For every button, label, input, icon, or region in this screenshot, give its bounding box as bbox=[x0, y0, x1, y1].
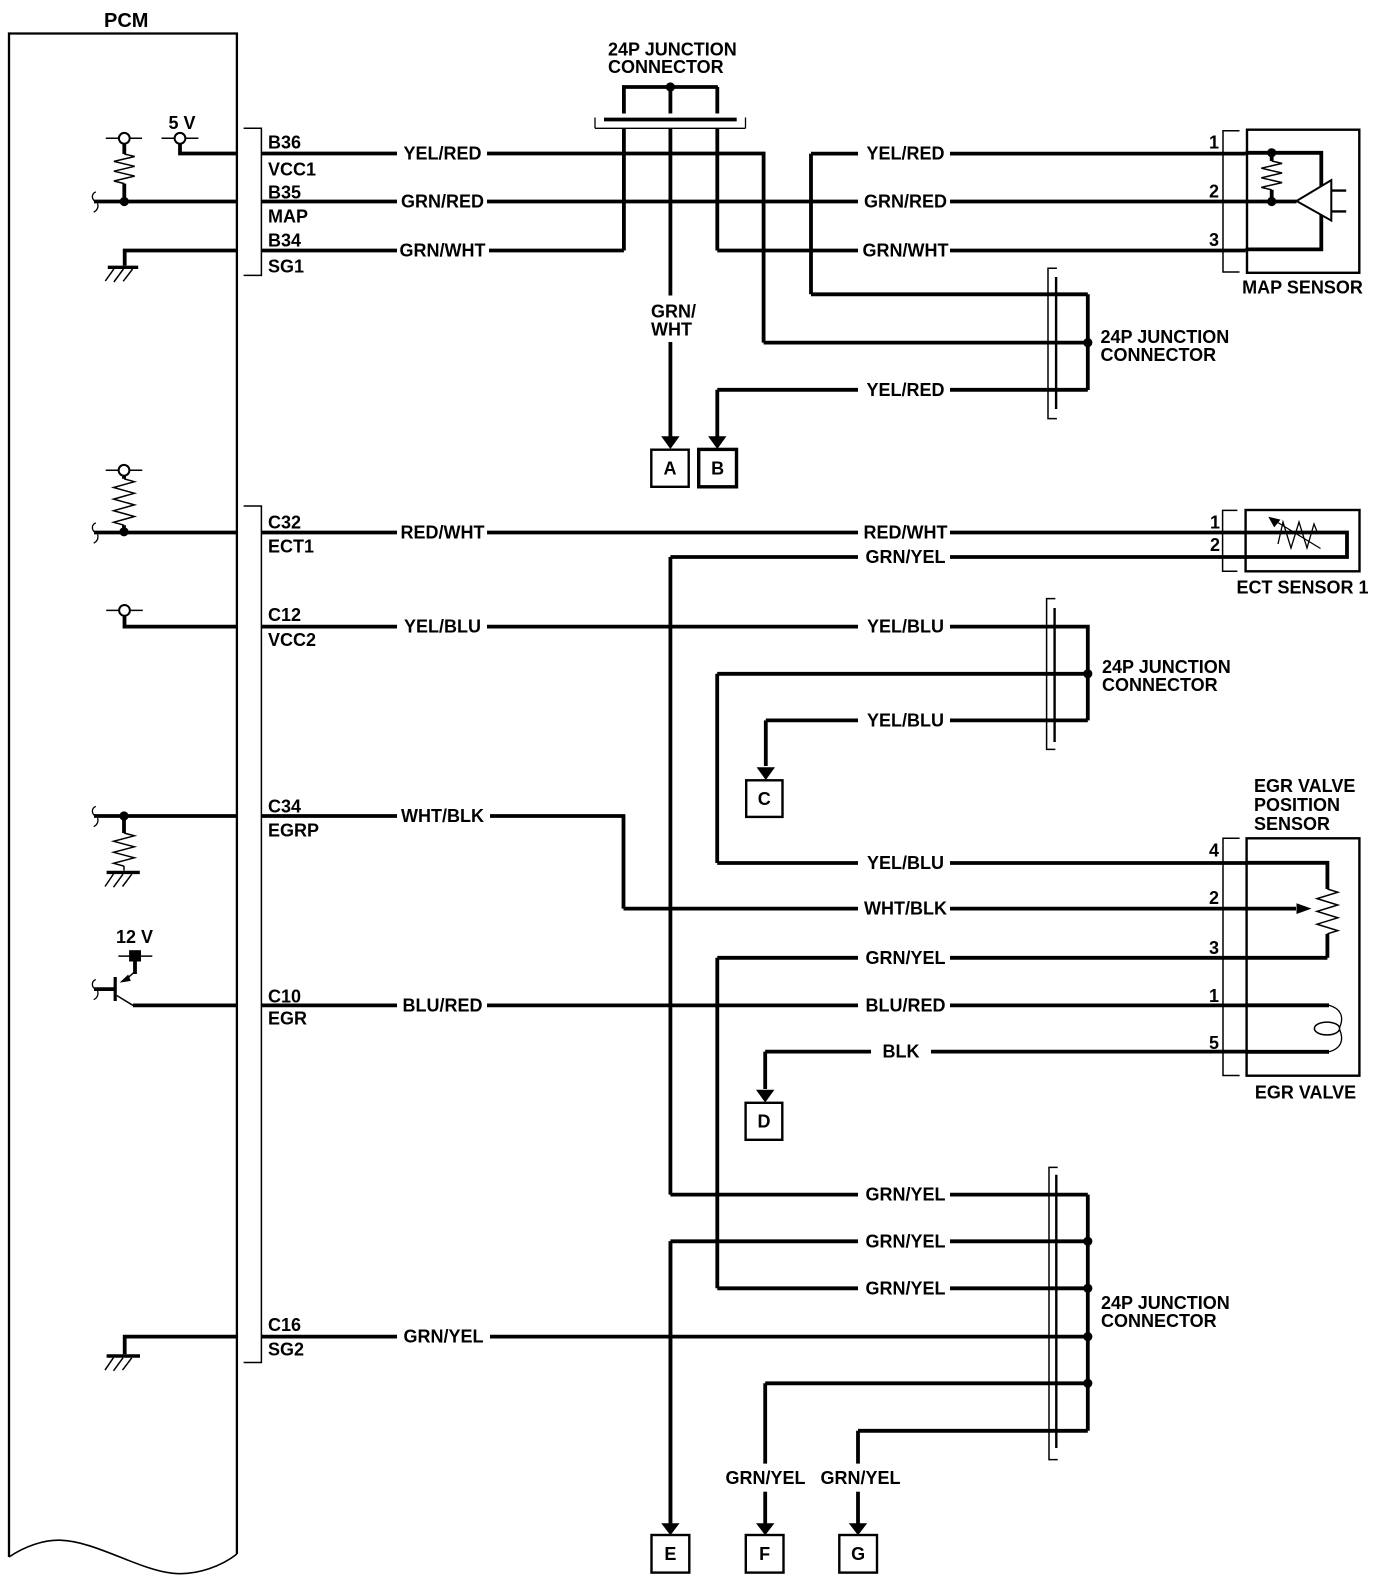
arrowhead A bbox=[661, 436, 679, 449]
svg-text:BLU/RED: BLU/RED bbox=[403, 995, 483, 1015]
EGR connector bracket bbox=[1223, 838, 1240, 1075]
wire GRN/WHT to MAP pin3 bbox=[950, 249, 1246, 253]
MAP internal supply wire bbox=[1246, 153, 1322, 250]
ECT connector bracket bbox=[1223, 510, 1238, 571]
wire YEL/RED upper run to MAP pin1 branch bbox=[811, 154, 1088, 295]
wire-break squiggle at transistor base bbox=[92, 980, 98, 1000]
wire GRN/YEL row6 (G) bbox=[858, 1431, 1088, 1464]
pin label ECT1 bbox=[268, 536, 314, 556]
pin number 2 (EGR) bbox=[1209, 888, 1219, 908]
label BLU/RED bbox=[403, 995, 483, 1015]
svg-text:GRN/YEL: GRN/YEL bbox=[865, 1278, 945, 1298]
wire WHT/BLK lower run bbox=[624, 907, 859, 911]
PCM box U1 bbox=[9, 10, 237, 1574]
svg-text:24P JUNCTION: 24P JUNCTION bbox=[1101, 1293, 1230, 1313]
svg-text:EGRP: EGRP bbox=[268, 820, 319, 840]
wire YEL/BLU C12 left segment bbox=[261, 625, 397, 629]
junction dot C16 row bbox=[1083, 1332, 1092, 1341]
wire GRN/RED middle segment bbox=[487, 200, 858, 204]
svg-text:RED/WHT: RED/WHT bbox=[864, 523, 948, 543]
wire GRN/YEL row5 (F) bbox=[765, 1383, 1088, 1463]
PCM connector bracket (B group) bbox=[244, 128, 262, 275]
label YEL/RED at MAP pin1 bbox=[866, 144, 944, 164]
ground SG1 bbox=[105, 267, 138, 282]
ground at EGRP resistor bbox=[105, 872, 140, 887]
label GRN/YEL row1 bbox=[865, 1185, 945, 1205]
wire GRN/YEL row3 left segment bbox=[717, 1286, 858, 1290]
MAP sensor connector bracket bbox=[1223, 131, 1240, 272]
wire YEL/BLU to EGR pin4 bbox=[950, 861, 1246, 865]
wire YEL/BLU branch to C left segment bbox=[766, 720, 858, 766]
svg-text:YEL/RED: YEL/RED bbox=[866, 144, 944, 164]
svg-text:1: 1 bbox=[1210, 512, 1220, 532]
node B box bbox=[699, 449, 737, 486]
wire GRN/WHT from junction to label bbox=[717, 249, 858, 253]
wire YEL/RED B36 left segment bbox=[261, 152, 397, 156]
EGR position sensor potentiometer bbox=[1246, 863, 1338, 958]
wire RED/WHT C32 left segment bbox=[261, 531, 397, 535]
svg-text:CONNECTOR: CONNECTOR bbox=[1101, 1311, 1217, 1331]
svg-text:GRN/YEL: GRN/YEL bbox=[403, 1327, 483, 1347]
svg-text:POSITION: POSITION bbox=[1254, 795, 1340, 815]
24P junction connector (right upper) body bbox=[1048, 268, 1057, 418]
wire BLU/RED to EGR pin1 bbox=[950, 1004, 1246, 1008]
pin label SG1 bbox=[268, 256, 304, 276]
transistor Q1 bbox=[94, 972, 135, 1007]
label EGR VALVE POSITION SENSOR bbox=[1254, 776, 1355, 834]
label YEL/BLU at C branch bbox=[867, 710, 944, 730]
svg-text:CONNECTOR: CONNECTOR bbox=[608, 57, 724, 77]
pin number 1 (ECT) bbox=[1210, 512, 1220, 532]
svg-text:SG1: SG1 bbox=[268, 256, 304, 276]
junction dot YEL/BLU bus bbox=[1083, 669, 1092, 678]
wire GRN/YEL EGR pin3 left segment bbox=[717, 958, 858, 1289]
pin label VCC2 bbox=[268, 630, 316, 650]
label 24P JUNCTION CONNECTOR (bottom) bbox=[1101, 1293, 1230, 1331]
wire GRN/RED B35 left segment bbox=[261, 200, 397, 204]
label BLK bbox=[883, 1042, 920, 1062]
wire GRN/YEL row2 to bus bbox=[950, 1239, 1088, 1243]
terminal circle + resistor R2 at ECT1 bbox=[106, 465, 143, 532]
pin number 5 (EGR) bbox=[1209, 1033, 1219, 1053]
svg-text:SG2: SG2 bbox=[268, 1340, 304, 1360]
svg-text:CONNECTOR: CONNECTOR bbox=[1101, 345, 1217, 365]
label GRN/YEL above G bbox=[820, 1468, 900, 1488]
resistor R3 to ground bbox=[114, 816, 135, 871]
wire GRN/YEL row1 left segment bbox=[670, 1193, 858, 1197]
wire C10 internal bbox=[133, 1004, 238, 1008]
pin label B36 bbox=[268, 133, 301, 153]
GRN/YEL bus vertical bbox=[1086, 1195, 1090, 1431]
svg-text:C32: C32 bbox=[268, 512, 301, 532]
wire YEL/RED MAP pin1 left segment bbox=[811, 152, 858, 156]
svg-text:WHT/BLK: WHT/BLK bbox=[401, 806, 484, 826]
label GRN/YEL C16 bbox=[403, 1327, 483, 1347]
wire YEL/BLU middle segment bbox=[487, 625, 858, 629]
svg-text:ECT SENSOR 1: ECT SENSOR 1 bbox=[1236, 578, 1368, 598]
svg-text:MAP SENSOR: MAP SENSOR bbox=[1242, 278, 1363, 298]
svg-text:24P JUNCTION: 24P JUNCTION bbox=[1101, 327, 1230, 347]
label GRN/RED at MAP pin2 bbox=[864, 192, 947, 212]
wire-break squiggle at B35 bbox=[92, 192, 98, 212]
pin label B34 bbox=[268, 230, 301, 250]
label GRN/WHT (two lines) bbox=[651, 302, 696, 340]
wire YEL/BLU C branch to bus bbox=[950, 719, 1088, 723]
svg-text:YEL/RED: YEL/RED bbox=[866, 380, 944, 400]
label YEL/BLU right bbox=[867, 617, 944, 637]
label GRN/YEL row3 bbox=[865, 1278, 945, 1298]
label YEL/RED at B branch bbox=[866, 380, 944, 400]
junction dot row5 bbox=[1083, 1379, 1092, 1388]
arrowhead F wire bbox=[756, 1492, 774, 1536]
wire YEL/RED branch to B bbox=[717, 390, 858, 443]
svg-text:C: C bbox=[758, 789, 771, 809]
svg-text:2: 2 bbox=[1209, 888, 1219, 908]
pin number 3 (EGR) bbox=[1209, 938, 1219, 958]
svg-text:YEL/BLU: YEL/BLU bbox=[867, 710, 944, 730]
wire GRN/WHT to junction connector bbox=[489, 249, 624, 253]
svg-text:B: B bbox=[711, 458, 724, 478]
arrowhead B bbox=[708, 436, 726, 449]
wire GRN/YEL row3 to bus bbox=[950, 1286, 1088, 1290]
pin label SG2 bbox=[268, 1340, 304, 1360]
label GRN/YEL row2 bbox=[865, 1231, 945, 1251]
pull-up resistor R1 with terminal circle bbox=[106, 133, 142, 202]
label YEL/RED bbox=[403, 144, 481, 164]
svg-text:EGR VALVE: EGR VALVE bbox=[1254, 776, 1355, 796]
arrowhead C bbox=[757, 767, 775, 780]
pin number 2 (ECT) bbox=[1210, 535, 1220, 555]
pin number 4 (EGR) bbox=[1209, 841, 1219, 861]
12V supply node bbox=[116, 927, 153, 974]
svg-text:YEL/RED: YEL/RED bbox=[403, 144, 481, 164]
wire GRN/WHT branch to A bbox=[669, 342, 673, 443]
svg-text:GRN/WHT: GRN/WHT bbox=[400, 241, 486, 261]
EGR solenoid coil bbox=[1246, 1005, 1342, 1052]
svg-text:12 V: 12 V bbox=[116, 927, 153, 947]
svg-text:GRN/WHT: GRN/WHT bbox=[863, 241, 949, 261]
svg-text:1: 1 bbox=[1209, 986, 1219, 1006]
wire B35 internal bbox=[94, 200, 238, 204]
svg-text:C16: C16 bbox=[268, 1315, 301, 1335]
pin number 1 (EGR) bbox=[1209, 986, 1219, 1006]
24P junction connector (bottom) body bbox=[1049, 1167, 1058, 1459]
svg-text:GRN/YEL: GRN/YEL bbox=[725, 1468, 805, 1488]
svg-text:E: E bbox=[664, 1544, 676, 1564]
label BLU/RED at EGR pin1 bbox=[866, 995, 946, 1015]
svg-text:BLK: BLK bbox=[883, 1042, 920, 1062]
arrowhead E bbox=[661, 1241, 679, 1535]
wire BLU/RED C10 left segment bbox=[261, 1004, 397, 1008]
svg-text:GRN/YEL: GRN/YEL bbox=[820, 1468, 900, 1488]
pin label VCC1 bbox=[268, 160, 316, 180]
wire YEL/RED B branch to connector bbox=[950, 388, 1088, 392]
node G box bbox=[839, 1535, 877, 1573]
wire GRN/WHT B34 left segment bbox=[261, 249, 397, 253]
label MAP SENSOR bbox=[1242, 278, 1363, 298]
wire GRN/YEL ECT pin2 segment bbox=[670, 555, 858, 559]
svg-text:CONNECTOR: CONNECTOR bbox=[1102, 675, 1218, 695]
svg-text:WHT/BLK: WHT/BLK bbox=[864, 899, 947, 919]
svg-text:A: A bbox=[664, 458, 677, 478]
pin label C32 bbox=[268, 512, 301, 532]
24P junction connector (right middle) body bbox=[1047, 599, 1056, 750]
wire GRN/YEL row1 to bus bbox=[950, 1193, 1088, 1197]
wire WHT/BLK corner bbox=[490, 816, 624, 909]
svg-text:BLU/RED: BLU/RED bbox=[866, 995, 946, 1015]
svg-text:F: F bbox=[759, 1544, 770, 1564]
junction dot MAP mid bbox=[1267, 197, 1276, 206]
wire YEL/RED lower run to junction bus bbox=[764, 341, 1088, 345]
svg-text:B35: B35 bbox=[268, 182, 301, 202]
node F box bbox=[746, 1535, 784, 1573]
wire YEL/BLU middle branch bbox=[717, 674, 1088, 863]
MAP sensor box U2 bbox=[1247, 130, 1359, 273]
wire C34 internal bbox=[94, 814, 238, 818]
terminal circle VCC2 bbox=[106, 605, 238, 627]
svg-text:GRN/YEL: GRN/YEL bbox=[865, 948, 945, 968]
MAP amplifier triangle bbox=[1297, 180, 1347, 220]
arrowhead G wire bbox=[849, 1492, 867, 1536]
junction dot row2 bbox=[1083, 1237, 1092, 1246]
svg-text:GRN/RED: GRN/RED bbox=[864, 192, 947, 212]
svg-text:C34: C34 bbox=[268, 797, 301, 817]
arrowhead D bbox=[756, 1090, 774, 1103]
pin label C12 bbox=[268, 605, 301, 625]
svg-text:G: G bbox=[851, 1544, 865, 1564]
label 24P JUNCTION CONNECTOR (right upper) bbox=[1101, 327, 1230, 365]
svg-text:GRN/YEL: GRN/YEL bbox=[865, 1185, 945, 1205]
pin number 1 (MAP) bbox=[1209, 132, 1219, 152]
svg-text:5: 5 bbox=[1209, 1033, 1219, 1053]
node A box bbox=[651, 450, 688, 487]
pin label C16 bbox=[268, 1315, 301, 1335]
svg-text:3: 3 bbox=[1209, 230, 1219, 250]
svg-text:EGR: EGR bbox=[268, 1009, 307, 1029]
svg-text:1: 1 bbox=[1209, 132, 1219, 152]
svg-text:GRN/RED: GRN/RED bbox=[401, 192, 484, 212]
svg-text:GRN/: GRN/ bbox=[651, 302, 696, 322]
5V supply node bbox=[162, 113, 239, 154]
PCM connector bracket (C group) bbox=[244, 506, 262, 1363]
svg-text:PCM: PCM bbox=[104, 10, 148, 32]
svg-text:2: 2 bbox=[1209, 182, 1219, 202]
svg-text:SENSOR: SENSOR bbox=[1254, 814, 1330, 834]
pin label C10 bbox=[268, 987, 301, 1007]
label RED/WHT at ECT bbox=[864, 523, 948, 543]
svg-text:D: D bbox=[758, 1111, 771, 1131]
svg-text:GRN/YEL: GRN/YEL bbox=[865, 547, 945, 567]
junction dot MAP top bbox=[1267, 148, 1276, 157]
svg-text:2: 2 bbox=[1210, 535, 1220, 555]
svg-text:YEL/BLU: YEL/BLU bbox=[404, 617, 481, 637]
wire BLK left segment bbox=[765, 1052, 871, 1089]
svg-text:GRN/YEL: GRN/YEL bbox=[865, 1231, 945, 1251]
ground SG2 bbox=[105, 1356, 140, 1371]
MAP internal signal wire bbox=[1246, 200, 1297, 204]
wire YEL/RED to corner bbox=[487, 154, 764, 343]
svg-text:B36: B36 bbox=[268, 133, 301, 153]
MAP internal resistor bbox=[1261, 153, 1282, 202]
pin label MAP bbox=[268, 207, 308, 227]
junction dot YEL/RED bus bbox=[1083, 338, 1092, 347]
node E box bbox=[652, 1535, 690, 1573]
pin label C34 bbox=[268, 797, 301, 817]
label GRN/RED bbox=[401, 192, 484, 212]
wire YEL/BLU to EGR pin4 left segment bbox=[717, 861, 858, 865]
wire BLK to EGR pin5 bbox=[931, 1050, 1246, 1054]
label YEL/BLU bbox=[404, 617, 481, 637]
svg-text:WHT: WHT bbox=[651, 320, 692, 340]
svg-text:EGR VALVE: EGR VALVE bbox=[1255, 1083, 1356, 1103]
junction dot row3 bbox=[1083, 1284, 1092, 1293]
ECT sensor 1 box U3 bbox=[1246, 510, 1360, 571]
wire-break squiggle at C32 bbox=[92, 523, 98, 543]
svg-text:VCC1: VCC1 bbox=[268, 160, 316, 180]
wire BLU/RED middle segment bbox=[487, 1004, 858, 1008]
wire GRN/YEL C16 to bus bbox=[490, 1335, 1088, 1339]
pin label EGR bbox=[268, 1009, 307, 1029]
label WHT/BLK bbox=[401, 806, 484, 826]
wire GRN/YEL to ECT pin2 bbox=[950, 555, 1244, 559]
wire GRN/RED to MAP pin2 bbox=[950, 200, 1246, 204]
24P junction connector (top) body bbox=[595, 114, 746, 129]
label EGR VALVE bbox=[1255, 1083, 1356, 1103]
svg-text:C12: C12 bbox=[268, 605, 301, 625]
wire GRN/YEL to EGR pin3 bbox=[950, 956, 1246, 960]
ECT internal element wire bbox=[1244, 533, 1347, 558]
junction dot on C32 wire bbox=[119, 527, 128, 536]
EGR valve box U4 bbox=[1247, 838, 1360, 1075]
wire YEL/RED bus vertical bbox=[1086, 294, 1090, 390]
wire B34 internal bbox=[125, 251, 238, 266]
svg-text:YEL/BLU: YEL/BLU bbox=[867, 853, 944, 873]
svg-text:4: 4 bbox=[1209, 841, 1219, 861]
label GRN/YEL at ECT bbox=[865, 547, 945, 567]
label GRN/WHT at MAP pin3 bbox=[863, 241, 949, 261]
label 24P JUNCTION CONNECTOR (top) bbox=[608, 39, 737, 76]
wire RED/WHT middle segment bbox=[487, 531, 858, 535]
label GRN/YEL above F bbox=[725, 1468, 805, 1488]
svg-text:VCC2: VCC2 bbox=[268, 630, 316, 650]
label 24P JUNCTION CONNECTOR (right middle) bbox=[1102, 657, 1231, 695]
svg-text:24P JUNCTION: 24P JUNCTION bbox=[1102, 657, 1231, 677]
label WHT/BLK at EGR pin2 bbox=[864, 899, 947, 919]
wire C16 internal bbox=[125, 1337, 238, 1355]
svg-text:3: 3 bbox=[1209, 938, 1219, 958]
svg-text:RED/WHT: RED/WHT bbox=[401, 523, 485, 543]
ECT thermistor zigzag bbox=[1268, 517, 1320, 549]
wire WHT/BLK C34 left segment bbox=[261, 814, 397, 818]
pin number 2 (MAP) bbox=[1209, 182, 1219, 202]
wire-break squiggle at C34 bbox=[92, 806, 98, 826]
svg-text:YEL/BLU: YEL/BLU bbox=[867, 617, 944, 637]
label ECT SENSOR 1 bbox=[1236, 578, 1368, 598]
EGR wiper arrow bbox=[1246, 903, 1312, 914]
svg-text:5 V: 5 V bbox=[168, 113, 195, 133]
label GRN/YEL at EGR pin3 bbox=[865, 948, 945, 968]
label GRN/WHT bbox=[400, 241, 486, 261]
wire GRN/YEL C16 left segment bbox=[261, 1335, 397, 1339]
junction dot on C34 wire bbox=[119, 811, 128, 820]
node C box bbox=[746, 780, 782, 817]
svg-text:MAP: MAP bbox=[268, 207, 308, 227]
wire WHT/BLK to EGR pin2 bbox=[950, 907, 1246, 911]
pin label B35 bbox=[268, 182, 301, 202]
wire C32 internal bbox=[94, 531, 238, 535]
junction dot on B35 wire bbox=[120, 197, 129, 206]
svg-text:B34: B34 bbox=[268, 230, 301, 250]
pin label EGRP bbox=[268, 820, 319, 840]
junction dot top connector bbox=[666, 82, 675, 91]
wire GRN/YEL row2 (E) left segment bbox=[670, 1241, 858, 1524]
wire YEL/RED MAP pin1 right segment bbox=[950, 152, 1246, 156]
24P junction connector (top) verticals bbox=[622, 87, 718, 296]
wire GRN/YEL long vertical bbox=[669, 557, 673, 1195]
pin number 3 (MAP) bbox=[1209, 230, 1219, 250]
wire RED/WHT to ECT pin1 bbox=[950, 531, 1244, 535]
node D box bbox=[746, 1103, 783, 1140]
svg-text:ECT1: ECT1 bbox=[268, 536, 314, 556]
label YEL/BLU at EGR pin4 bbox=[867, 853, 944, 873]
label RED/WHT bbox=[401, 523, 485, 543]
wire YEL/BLU to bus corner bbox=[950, 627, 1088, 721]
